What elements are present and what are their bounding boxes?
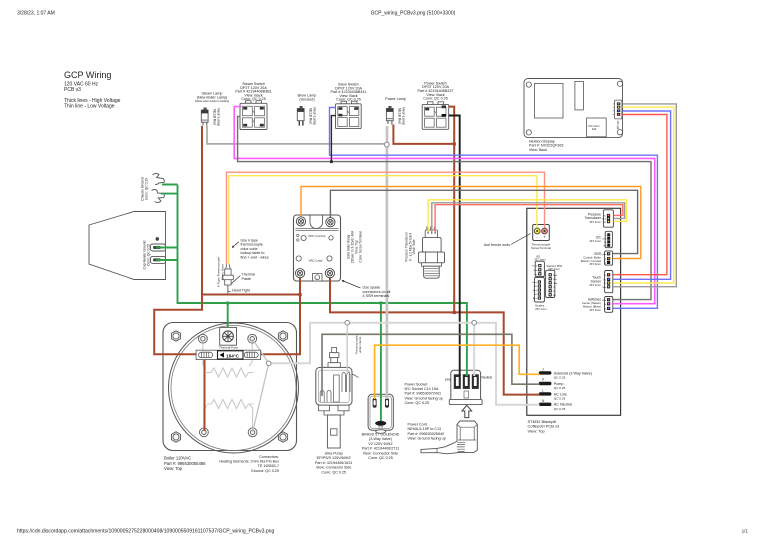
svg-text:(Unused): (Unused) bbox=[299, 98, 314, 102]
svg-text:4 SSR terminals: 4 SSR terminals bbox=[363, 294, 390, 298]
svg-text:QC 0.25: QC 0.25 bbox=[554, 407, 566, 411]
svg-text:Thin line - Low Voltage: Thin line - Low Voltage bbox=[64, 104, 115, 110]
svg-text:Conn: QC 0.25: Conn: QC 0.25 bbox=[144, 178, 148, 200]
svg-text:Boiler 120VAC: Boiler 120VAC bbox=[164, 456, 191, 461]
svg-text:Connectors:: Connectors: bbox=[259, 455, 279, 459]
svg-text:184°C: 184°C bbox=[226, 353, 240, 358]
svg-text:IEC Socket C14 15A: IEC Socket C14 15A bbox=[405, 387, 439, 391]
svg-text:JST 2mm: JST 2mm bbox=[589, 262, 602, 266]
svg-text:JST 1mm: JST 1mm bbox=[589, 239, 602, 243]
svg-text:Gnd: Gnd bbox=[378, 425, 383, 429]
svg-text:Screw Terminal: Screw Terminal bbox=[531, 246, 551, 250]
svg-text:Ground: QC 0.25: Ground: QC 0.25 bbox=[251, 469, 279, 473]
svg-text:GCP Wiring: GCP Wiring bbox=[64, 70, 111, 80]
svg-text:VDC Control: VDC Control bbox=[308, 234, 326, 238]
svg-text:Line: Line bbox=[445, 378, 451, 382]
svg-text:Use ferrule ends: Use ferrule ends bbox=[484, 243, 511, 247]
svg-text:NE1B Red: NE1B Red bbox=[213, 109, 217, 125]
svg-text:Conn: QC 0.25: Conn: QC 0.25 bbox=[423, 97, 448, 101]
svg-text:Part #: 42194406/2711: Part #: 42194406/2711 bbox=[362, 447, 399, 451]
svg-text:Ulka Pump: Ulka Pump bbox=[325, 452, 343, 456]
svg-text:JST 2mm: JST 2mm bbox=[548, 267, 560, 271]
svg-text:4dd: 4dd bbox=[592, 127, 597, 131]
svg-text:Part #: 996530072431: Part #: 996530072431 bbox=[405, 392, 442, 396]
svg-text:VAC Load: VAC Load bbox=[309, 259, 323, 263]
svg-text:Power Lamp: Power Lamp bbox=[385, 97, 406, 101]
svg-text:Hand Tight: Hand Tight bbox=[232, 288, 250, 292]
svg-text:EP/PS/S 120V/60HZ: EP/PS/S 120V/60HZ bbox=[317, 456, 352, 460]
svg-text:NE1B Red: NE1B Red bbox=[309, 108, 313, 124]
svg-text:Part #: 996530025840: Part #: 996530025840 bbox=[408, 432, 445, 436]
svg-text:Neon Lamp: Neon Lamp bbox=[402, 107, 406, 125]
svg-text:JST 2mm: JST 2mm bbox=[535, 307, 547, 311]
svg-text:View: Ground facing up: View: Ground facing up bbox=[408, 437, 446, 441]
svg-text:QC 0.25: QC 0.25 bbox=[554, 397, 566, 401]
svg-text:V2 120V 60HZ: V2 120V 60HZ bbox=[368, 442, 393, 446]
svg-text:5v dc: 5v dc bbox=[532, 266, 538, 268]
svg-text:Neutral: Neutral bbox=[482, 376, 493, 380]
svg-text:(3-Way Valve): (3-Way Valve) bbox=[369, 437, 392, 441]
svg-text:Part #: 42194406/1631: Part #: 42194406/1631 bbox=[315, 461, 353, 465]
svg-text:Part #: 996530055486: Part #: 996530055486 bbox=[164, 461, 206, 466]
svg-text:Thermal Fuse: Thermal Fuse bbox=[219, 345, 238, 349]
svg-text:View: Back: View: Back bbox=[529, 148, 547, 152]
svg-text:View: Side: View: Side bbox=[412, 239, 416, 254]
svg-text:https://cdn.discordapp.com/att: https://cdn.discordapp.com/attachments/1… bbox=[17, 529, 274, 535]
svg-text:Conn: QC 0.25: Conn: QC 0.25 bbox=[321, 470, 346, 474]
svg-text:Conn: Screw Terminal: Conn: Screw Terminal bbox=[359, 231, 363, 262]
svg-text:Conn: QC 0.25: Conn: QC 0.25 bbox=[146, 244, 150, 266]
svg-text:P: P bbox=[542, 378, 544, 382]
svg-text:Conn: Bare: Conn: Bare bbox=[220, 264, 224, 280]
svg-text:NE1B Red: NE1B Red bbox=[398, 108, 402, 124]
svg-text:QC 0.25: QC 0.25 bbox=[554, 386, 566, 390]
svg-text:JST 2mm: JST 2mm bbox=[589, 220, 602, 224]
svg-text:View: Connector Side: View: Connector Side bbox=[363, 451, 398, 455]
svg-text:3/28/23, 1:07 AM: 3/28/23, 1:07 AM bbox=[17, 11, 55, 17]
svg-text:find + and - wires: find + and - wires bbox=[241, 255, 269, 259]
svg-text:Heating Elements: 2mm Dia Pin: Heating Elements: 2mm Dia Pin Bux bbox=[219, 460, 279, 464]
svg-text:QC 0.25: QC 0.25 bbox=[554, 376, 566, 380]
svg-text:Br: Br bbox=[604, 308, 606, 311]
svg-text:Power Socket: Power Socket bbox=[405, 383, 428, 387]
svg-text:View: Ground facing up: View: Ground facing up bbox=[405, 396, 443, 400]
svg-text:Conn: QC 0.25: Conn: QC 0.25 bbox=[241, 97, 266, 101]
svg-text:Neon Lamp: Neon Lamp bbox=[216, 108, 220, 126]
svg-text:1/1: 1/1 bbox=[742, 529, 749, 534]
svg-text:+: + bbox=[543, 235, 546, 240]
svg-text:Neon Lamp: Neon Lamp bbox=[312, 107, 316, 125]
svg-text:Data: Data bbox=[532, 281, 537, 284]
svg-text:PCB v3: PCB v3 bbox=[64, 87, 81, 93]
svg-text:BRASS 57 SOLENOID: BRASS 57 SOLENOID bbox=[362, 433, 400, 437]
svg-text:JST 2mm: JST 2mm bbox=[589, 308, 602, 312]
svg-text:Conn: QC 0.25: Conn: QC 0.25 bbox=[336, 98, 361, 102]
svg-text:Glows when boiler is heating: Glows when boiler is heating bbox=[195, 99, 230, 103]
svg-text:JST 2mm: JST 2mm bbox=[589, 283, 602, 287]
svg-text:L: L bbox=[542, 388, 544, 392]
svg-text:Paste: Paste bbox=[242, 277, 251, 281]
svg-text:JST 2mm: JST 2mm bbox=[534, 258, 546, 262]
svg-text:View: Connector Side: View: Connector Side bbox=[316, 466, 351, 470]
svg-text:Conn: QC 0.25: Conn: QC 0.25 bbox=[405, 401, 430, 405]
svg-text:NEMA-5-15P to C13: NEMA-5-15P to C13 bbox=[408, 427, 442, 431]
svg-text:View: Top: View: Top bbox=[528, 429, 546, 434]
svg-text:View: Top: View: Top bbox=[164, 466, 183, 471]
svg-text:JST 4pin: JST 4pin bbox=[616, 121, 619, 131]
svg-text:Pwr: Pwr bbox=[553, 278, 557, 281]
svg-text:Conn: QC 0.25: Conn: QC 0.25 bbox=[368, 456, 393, 460]
svg-text:GCP_wiring_PCBv3.png (5100×330: GCP_wiring_PCBv3.png (5100×3300) bbox=[371, 11, 456, 17]
svg-text:TE 163563-7: TE 163563-7 bbox=[258, 464, 279, 468]
svg-text:under clamp: under clamp bbox=[358, 336, 362, 353]
svg-text:Power Cord: Power Cord bbox=[408, 423, 427, 427]
